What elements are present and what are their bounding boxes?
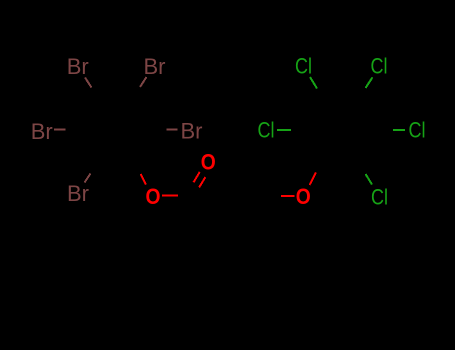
svg-text:Br: Br [67, 181, 89, 206]
svg-text:O: O [146, 184, 161, 209]
C-Br half-bond to right Br [166, 128, 177, 130]
C-Br half-bond to left Br [54, 129, 66, 131]
C-Cl half-bond to right Cl [393, 129, 405, 131]
svg-text:Br: Br [31, 119, 53, 144]
svg-text:Cl: Cl [371, 185, 388, 210]
half-bond phenoxy O to chloro ring [310, 173, 317, 186]
svg-text:Br: Br [67, 54, 89, 79]
half-bond ester O to bromo ring [141, 174, 147, 185]
half-bond ester O to carbonyl C [162, 194, 178, 196]
svg-text:Br: Br [144, 54, 166, 79]
C-Br half-bond to bottom-left Br [85, 174, 91, 183]
svg-text:Cl: Cl [371, 54, 388, 79]
C-Cl half-bond to left Cl [277, 129, 291, 131]
C=O double bond half line 2 [199, 177, 205, 187]
svg-text:O: O [201, 150, 216, 175]
svg-text:Cl: Cl [258, 118, 275, 143]
svg-text:Cl: Cl [409, 118, 426, 143]
C-Br half-bond to top-left Br [85, 78, 92, 88]
svg-text:O: O [296, 184, 311, 209]
C-Br half-bond to top-right Br [140, 77, 147, 87]
half-bond phenoxy O to CH2 [281, 195, 295, 197]
C-Cl half-bond to top-left Cl [310, 77, 317, 89]
svg-text:Cl: Cl [295, 54, 312, 79]
svg-text:Br: Br [181, 119, 203, 144]
C-Cl half-bond to bottom-right Cl [366, 174, 373, 185]
C=O double bond half line 1 [194, 172, 200, 182]
C-Cl half-bond to top-right Cl [366, 77, 373, 88]
